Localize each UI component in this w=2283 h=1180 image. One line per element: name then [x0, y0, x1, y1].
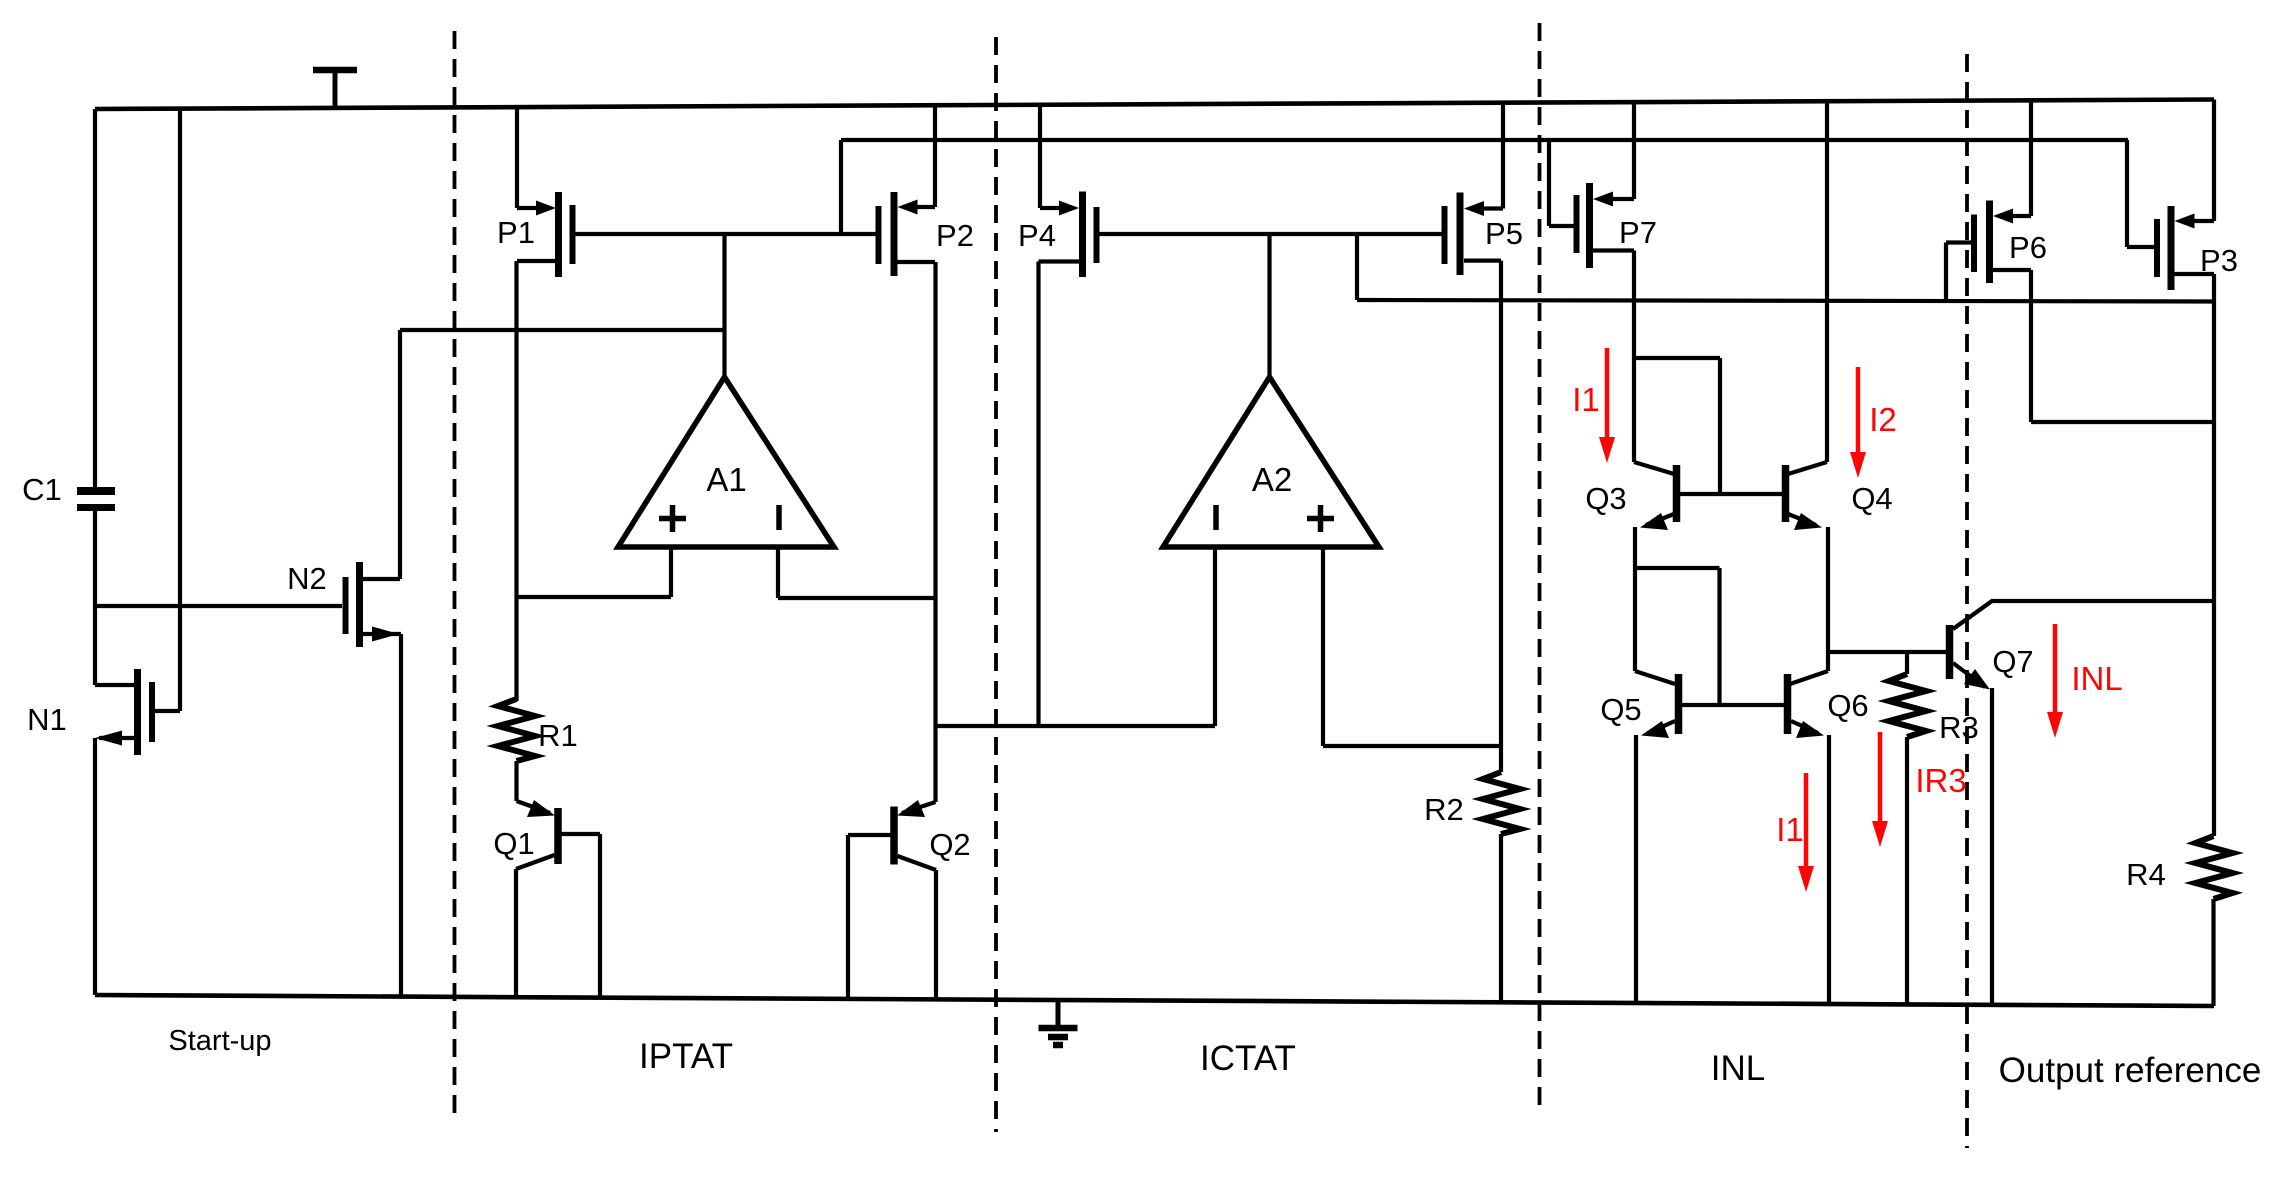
svg-text:I1: I1 [1572, 381, 1600, 418]
wire P7 gate drop from gate rail [1547, 140, 1551, 226]
svg-text:IR3: IR3 [1915, 762, 1966, 799]
transistor Q2 [848, 800, 936, 999]
wire P2 drain down to Q2 emitter [933, 262, 937, 802]
svg-text:I2: I2 [1869, 401, 1897, 438]
section divider dashed line 3 [1538, 23, 1542, 1109]
wire P4 drain down to A2- node [1036, 262, 1040, 727]
wire P1 drain down to R1 / A1+ [514, 261, 518, 701]
ground symbol [1039, 1001, 1078, 1045]
wire C1 bottom to N1 drain node [93, 511, 97, 685]
wire Q5 emitter to ground [1634, 735, 1638, 1003]
current arrow I1 lower [1798, 773, 1814, 892]
wire P3 drain / output vertical [2212, 274, 2216, 836]
svg-text:ICTAT: ICTAT [1200, 1039, 1296, 1078]
transistor P1 [517, 109, 573, 277]
svg-text:Q4: Q4 [1851, 481, 1892, 516]
resistor R4 [2196, 836, 2233, 1006]
svg-text:Q5: Q5 [1600, 692, 1641, 727]
transistor P6 [1946, 101, 2031, 284]
wire Q7 collector to output node [1991, 599, 2214, 603]
wire Q3 emitter down to Q5 [1633, 527, 1637, 671]
svg-text:P1: P1 [497, 215, 535, 250]
svg-text:P7: P7 [1619, 215, 1657, 250]
wire Q5 base tie [1635, 568, 1720, 705]
wire A1 + input [517, 595, 672, 599]
wire A2 output to P4/P5 gate line [1267, 234, 1271, 377]
wire P4/P5 gate drop to bias line [1355, 234, 1359, 300]
transistor P4 [1039, 104, 1097, 277]
svg-text:R3: R3 [1939, 710, 1979, 745]
svg-text:Q2: Q2 [929, 827, 970, 862]
current arrow IR3 [1872, 732, 1888, 847]
wire Q4 collector from VDD [1825, 101, 1829, 462]
transistor Q5 [1635, 671, 1784, 738]
svg-text:P3: P3 [2200, 243, 2238, 278]
svg-text:Q1: Q1 [493, 826, 534, 861]
resistor R3 [1889, 652, 1926, 1004]
wire P6 drain to output vertical [2031, 420, 2214, 424]
op-amp A2 [1163, 377, 1379, 547]
section divider dashed line 4 [1965, 54, 1969, 1148]
wire P6 drain down [2029, 270, 2033, 422]
wire R1 to Q1 emitter [514, 761, 518, 801]
transistor P7 [1549, 102, 1634, 268]
wire Q3 collector-base tie [1634, 358, 1720, 494]
transistor P3 [2127, 100, 2214, 291]
wire A2 - input to P2 drain node [936, 724, 1215, 728]
svg-text:A1: A1 [706, 461, 746, 498]
wire Q4 emitter down to Q6 [1826, 527, 1830, 671]
svg-text:A2: A2 [1252, 461, 1292, 498]
resistor R2 [1483, 746, 1520, 1003]
wire N2 drain up [398, 330, 402, 579]
transistor Q3 [1634, 462, 1782, 530]
svg-text:R2: R2 [1424, 792, 1464, 827]
section divider dashed line 2 [994, 37, 998, 1132]
wire P5 drain down to R2 [1499, 261, 1503, 746]
svg-text:I1: I1 [1776, 811, 1804, 848]
svg-text:INL: INL [2071, 660, 2122, 697]
svg-text:C1: C1 [22, 472, 62, 507]
wire A2 + to R2 top [1323, 744, 1501, 748]
wire P4 P5 gate wire [1100, 232, 1442, 236]
power supply symbol VDD [313, 70, 357, 108]
transistor P2 [879, 104, 936, 276]
svg-text:INL: INL [1711, 1049, 1765, 1088]
current arrow I1 top [1599, 348, 1615, 463]
transistor P5 [1445, 104, 1504, 275]
wire gate rail drop to P1/P2 gates [839, 140, 843, 234]
current arrow INL [2047, 624, 2063, 738]
wire Q7 emitter to ground [1990, 688, 1994, 1005]
wire left vertical from VDD to C1 [93, 109, 97, 488]
wire ground bottom rail [95, 995, 2214, 1006]
current arrow I2 [1850, 367, 1866, 478]
svg-text:N2: N2 [287, 561, 327, 596]
svg-text:P2: P2 [936, 218, 974, 253]
section divider dashed line 1 [453, 31, 457, 1122]
resistor R1 [498, 699, 535, 761]
wire Q4/Q6 node to R3 and Q7 base [1828, 650, 1946, 654]
wire P3 gate drop from gate rail [2125, 140, 2129, 247]
wire gate bias rail (P1/P2/P7/P3 gates) [841, 138, 2128, 142]
transistor Q7 [1950, 601, 1993, 690]
svg-text:Q7: Q7 [1992, 644, 2033, 679]
svg-text:IPTAT: IPTAT [639, 1037, 733, 1076]
wire A2 - input stub [1213, 547, 1217, 726]
svg-text:N1: N1 [27, 702, 67, 737]
transistor Q4 [1786, 462, 1828, 530]
wire node C1/N1-drain to N2 gate [95, 604, 342, 608]
capacitor C1 [77, 491, 115, 508]
wire Q6 emitter to ground [1827, 735, 1831, 1003]
wire P1 P2 gate wire [576, 232, 876, 236]
wire A1 output to P1/P2 gate line [722, 234, 726, 377]
wire N2 drain to A1 output node [400, 328, 725, 332]
wire A1 - input [776, 547, 780, 598]
wire N1 gate tie to VDD [178, 109, 182, 711]
wire P6 gate drop to bias line [1944, 243, 1948, 302]
svg-text:Q3: Q3 [1585, 481, 1626, 516]
wire VDD top rail [95, 100, 2214, 110]
svg-text:Q6: Q6 [1827, 688, 1868, 723]
svg-text:R4: R4 [2126, 857, 2166, 892]
svg-text:P4: P4 [1018, 218, 1056, 253]
svg-text:Output reference: Output reference [1999, 1051, 2262, 1090]
wire bias line (P4/P5/P6 gates to P3 drain) [1357, 300, 2214, 302]
transistor Q1 [516, 800, 600, 997]
wire P7 drain down to Q3 [1632, 251, 1636, 463]
svg-text:Start-up: Start-up [168, 1025, 271, 1057]
transistor Q6 [1788, 671, 1829, 738]
wire N1 source to ground [93, 738, 97, 995]
transistor N1 [95, 669, 180, 755]
transistor N2 [346, 562, 402, 647]
svg-text:P5: P5 [1485, 216, 1523, 251]
wire A2 + input stub [1321, 547, 1325, 746]
op-amp A1 [618, 377, 834, 547]
wire N2 source to ground [399, 634, 403, 997]
svg-text:R1: R1 [538, 718, 578, 753]
svg-text:P6: P6 [2009, 230, 2047, 265]
